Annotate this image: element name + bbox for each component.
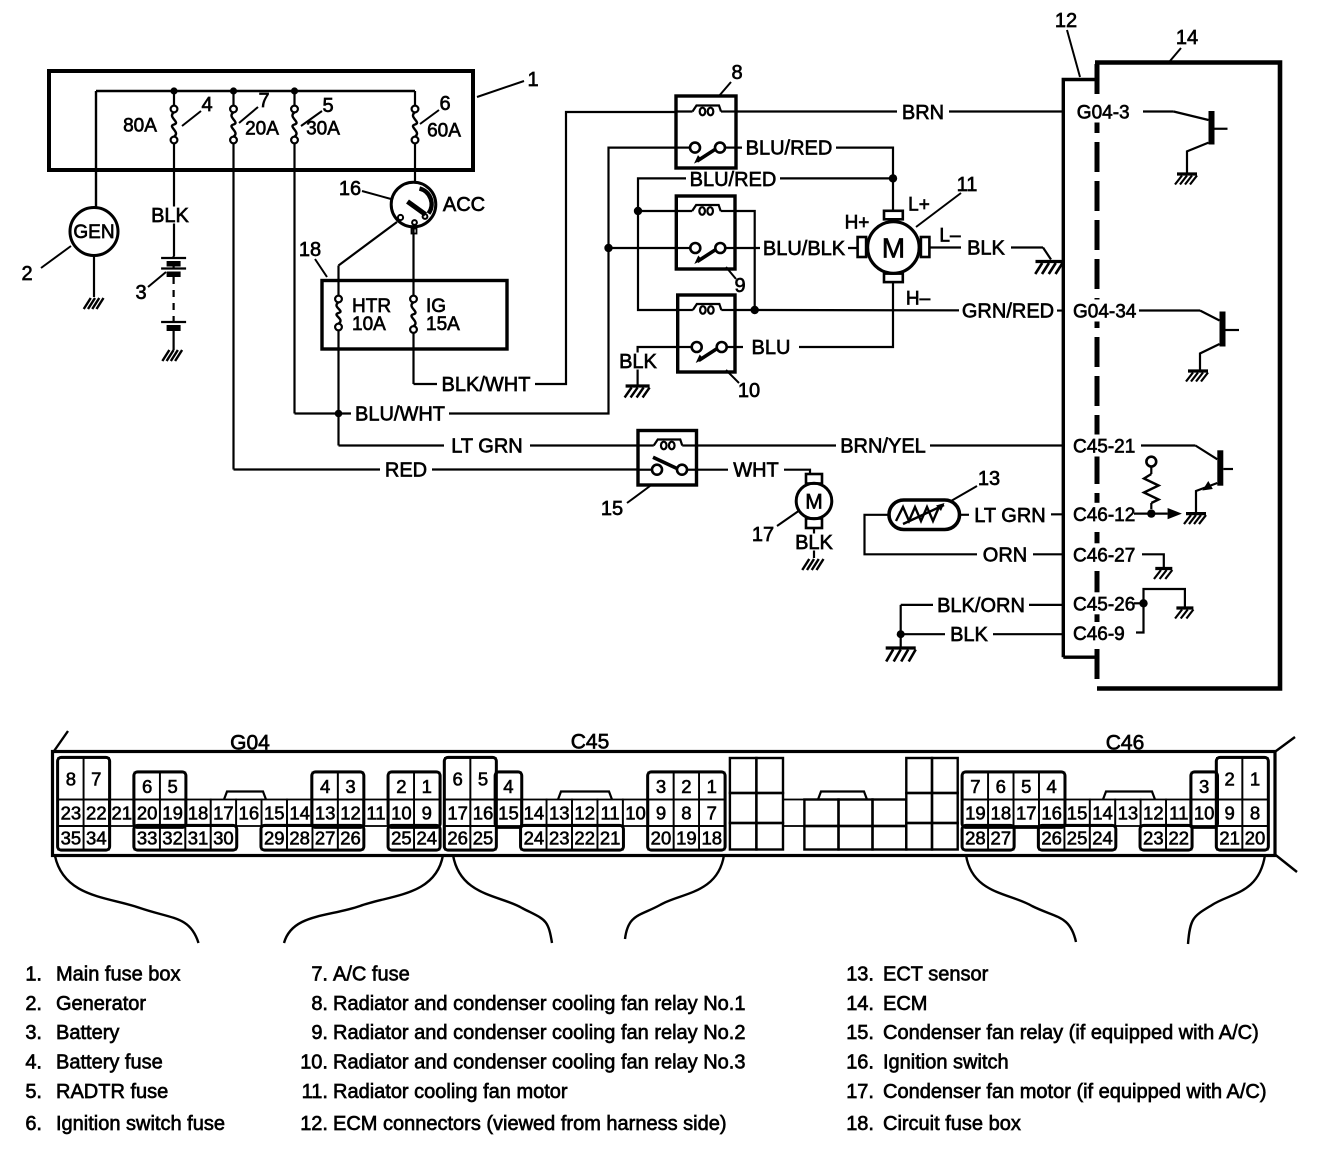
svg-text:23: 23 <box>549 828 570 849</box>
svg-text:9: 9 <box>1224 803 1234 824</box>
svg-text:G04: G04 <box>230 731 270 754</box>
svg-text:32: 32 <box>162 828 183 849</box>
svg-text:24: 24 <box>1092 828 1113 849</box>
svg-text:10A: 10A <box>352 314 386 335</box>
svg-text:ECM connectors (viewed from ha: ECM connectors (viewed from harness side… <box>333 1113 726 1135</box>
svg-text:10: 10 <box>625 803 646 824</box>
svg-text:Radiator cooling fan motor: Radiator cooling fan motor <box>333 1081 568 1103</box>
svg-text:Circuit fuse box: Circuit fuse box <box>883 1113 1021 1135</box>
svg-text:20A: 20A <box>245 119 279 140</box>
svg-text:11: 11 <box>957 174 978 196</box>
svg-text:2: 2 <box>1224 769 1234 790</box>
svg-text:11: 11 <box>366 803 385 824</box>
svg-text:12: 12 <box>1143 803 1164 824</box>
svg-text:C46-12: C46-12 <box>1073 505 1135 526</box>
svg-text:L–: L– <box>939 226 961 247</box>
svg-text:15.: 15. <box>846 1022 874 1044</box>
svg-text:28: 28 <box>965 828 986 849</box>
svg-text:1: 1 <box>422 776 432 797</box>
svg-text:26: 26 <box>1041 828 1062 849</box>
svg-text:15: 15 <box>601 498 623 520</box>
svg-text:30A: 30A <box>306 119 340 140</box>
svg-text:10: 10 <box>1194 803 1215 824</box>
svg-text:29: 29 <box>264 828 285 849</box>
svg-text:8.: 8. <box>311 993 328 1015</box>
svg-text:BLK: BLK <box>151 205 189 227</box>
svg-text:16: 16 <box>1041 803 1062 824</box>
svg-text:ECM: ECM <box>883 993 927 1015</box>
svg-text:18: 18 <box>299 239 321 261</box>
svg-text:6: 6 <box>142 776 152 797</box>
svg-text:21: 21 <box>600 828 621 849</box>
svg-text:27: 27 <box>315 828 336 849</box>
svg-text:8: 8 <box>681 803 691 824</box>
svg-text:8: 8 <box>66 769 76 790</box>
svg-text:14.: 14. <box>846 993 874 1015</box>
svg-text:M: M <box>805 490 823 513</box>
svg-text:17: 17 <box>752 524 774 546</box>
svg-text:RADTR fuse: RADTR fuse <box>56 1081 168 1103</box>
svg-text:Condenser fan relay (if equipp: Condenser fan relay (if equipped with A/… <box>883 1022 1259 1044</box>
svg-text:15A: 15A <box>426 314 460 335</box>
svg-text:9.: 9. <box>311 1022 328 1044</box>
svg-text:19: 19 <box>965 803 986 824</box>
svg-text:C46-27: C46-27 <box>1073 545 1135 566</box>
svg-text:9: 9 <box>422 803 432 824</box>
svg-text:11: 11 <box>1169 803 1188 824</box>
svg-text:2: 2 <box>396 776 406 797</box>
svg-text:12: 12 <box>574 803 595 824</box>
svg-text:12: 12 <box>340 803 361 824</box>
svg-text:24: 24 <box>524 828 545 849</box>
svg-text:GEN: GEN <box>73 222 114 243</box>
svg-text:G04-34: G04-34 <box>1073 302 1137 323</box>
svg-text:G04-3: G04-3 <box>1073 103 1130 124</box>
svg-text:20: 20 <box>1245 828 1266 849</box>
svg-text:17: 17 <box>447 803 468 824</box>
svg-text:3.: 3. <box>25 1022 42 1044</box>
svg-text:22: 22 <box>1168 828 1189 849</box>
svg-text:2.: 2. <box>25 993 42 1015</box>
svg-text:Condenser fan motor (if equipp: Condenser fan motor (if equipped with A/… <box>883 1081 1267 1103</box>
svg-text:17: 17 <box>1016 803 1037 824</box>
svg-text:Radiator and condenser cooling: Radiator and condenser cooling fan relay… <box>333 993 745 1015</box>
svg-text:4: 4 <box>201 94 212 116</box>
svg-text:4: 4 <box>503 776 513 797</box>
svg-text:7: 7 <box>970 776 980 797</box>
svg-text:GRN/RED: GRN/RED <box>962 301 1054 323</box>
svg-text:34: 34 <box>86 828 107 849</box>
svg-text:ECT sensor: ECT sensor <box>883 964 989 986</box>
svg-text:17: 17 <box>213 803 234 824</box>
svg-text:7: 7 <box>91 769 101 790</box>
svg-text:Battery fuse: Battery fuse <box>56 1052 163 1074</box>
svg-text:25: 25 <box>391 828 412 849</box>
svg-text:LT GRN: LT GRN <box>451 436 523 458</box>
svg-text:BLU/BLK: BLU/BLK <box>763 238 846 260</box>
svg-text:1: 1 <box>1250 769 1260 790</box>
svg-text:BLU: BLU <box>752 337 791 359</box>
svg-text:28: 28 <box>289 828 310 849</box>
svg-text:35: 35 <box>61 828 82 849</box>
svg-text:BLK/WHT: BLK/WHT <box>442 374 531 396</box>
svg-text:5.: 5. <box>25 1081 42 1103</box>
svg-text:15: 15 <box>1067 803 1088 824</box>
svg-text:11.: 11. <box>302 1081 328 1103</box>
svg-text:6: 6 <box>439 93 450 115</box>
svg-text:Generator: Generator <box>56 993 146 1015</box>
svg-text:BLK: BLK <box>950 624 988 646</box>
svg-text:10.: 10. <box>300 1052 328 1074</box>
svg-text:C45-26: C45-26 <box>1073 594 1135 615</box>
svg-text:Battery: Battery <box>56 1022 119 1044</box>
svg-text:ACC: ACC <box>443 194 485 216</box>
svg-text:BRN/YEL: BRN/YEL <box>840 436 926 458</box>
svg-text:16: 16 <box>473 803 494 824</box>
svg-text:9: 9 <box>734 275 745 297</box>
svg-text:1: 1 <box>707 776 717 797</box>
svg-text:7: 7 <box>707 803 717 824</box>
svg-text:WHT: WHT <box>733 460 779 482</box>
svg-text:25: 25 <box>473 828 494 849</box>
svg-text:21: 21 <box>111 803 132 824</box>
svg-text:7: 7 <box>258 90 269 112</box>
svg-text:1.: 1. <box>25 964 42 986</box>
svg-text:C45-21: C45-21 <box>1073 437 1135 458</box>
svg-text:Main fuse box: Main fuse box <box>56 964 181 986</box>
svg-text:C46-9: C46-9 <box>1073 624 1125 645</box>
svg-text:5: 5 <box>167 776 177 797</box>
svg-text:C45: C45 <box>571 730 610 753</box>
svg-text:22: 22 <box>574 828 595 849</box>
svg-text:9: 9 <box>656 803 666 824</box>
svg-text:18.: 18. <box>846 1113 874 1135</box>
svg-text:16: 16 <box>339 178 361 200</box>
svg-text:M: M <box>882 232 905 263</box>
svg-text:14: 14 <box>289 803 310 824</box>
svg-text:12: 12 <box>1055 10 1077 32</box>
svg-text:18: 18 <box>702 828 723 849</box>
svg-text:3: 3 <box>345 776 355 797</box>
svg-text:25: 25 <box>1067 828 1088 849</box>
svg-text:RED: RED <box>385 460 427 482</box>
svg-text:23: 23 <box>61 803 82 824</box>
svg-text:BLK: BLK <box>619 351 657 373</box>
svg-text:24: 24 <box>417 828 438 849</box>
svg-text:18: 18 <box>991 803 1012 824</box>
svg-text:31: 31 <box>188 828 209 849</box>
svg-text:17.: 17. <box>846 1081 874 1103</box>
svg-text:BLU/WHT: BLU/WHT <box>355 404 445 426</box>
svg-text:6: 6 <box>452 769 462 790</box>
svg-text:16: 16 <box>239 803 260 824</box>
svg-text:30: 30 <box>213 828 234 849</box>
svg-text:Radiator and condenser cooling: Radiator and condenser cooling fan relay… <box>333 1052 745 1074</box>
svg-text:1: 1 <box>527 69 538 91</box>
svg-text:C46: C46 <box>1106 731 1145 754</box>
svg-text:6.: 6. <box>25 1113 42 1135</box>
svg-text:BRN: BRN <box>902 102 944 124</box>
svg-text:7.: 7. <box>311 964 328 986</box>
svg-text:10: 10 <box>391 803 412 824</box>
svg-text:BLK: BLK <box>967 238 1005 260</box>
svg-text:14: 14 <box>524 803 545 824</box>
svg-text:5: 5 <box>478 769 488 790</box>
svg-text:4: 4 <box>320 776 330 797</box>
svg-text:BLU/RED: BLU/RED <box>690 169 777 191</box>
svg-text:A/C fuse: A/C fuse <box>333 964 410 986</box>
svg-text:21: 21 <box>1219 828 1240 849</box>
svg-text:26: 26 <box>447 828 468 849</box>
svg-text:22: 22 <box>86 803 107 824</box>
svg-text:60A: 60A <box>427 121 461 142</box>
svg-text:8: 8 <box>1250 803 1260 824</box>
svg-text:27: 27 <box>991 828 1012 849</box>
svg-text:15: 15 <box>498 803 519 824</box>
svg-text:3: 3 <box>656 776 666 797</box>
svg-text:H–: H– <box>906 289 931 310</box>
svg-text:LT GRN: LT GRN <box>974 505 1046 527</box>
svg-text:Ignition switch: Ignition switch <box>883 1052 1009 1074</box>
svg-text:L+: L+ <box>908 195 930 216</box>
svg-text:18: 18 <box>188 803 209 824</box>
svg-text:BLU/RED: BLU/RED <box>746 138 833 160</box>
svg-text:19: 19 <box>162 803 183 824</box>
svg-text:4.: 4. <box>25 1052 42 1074</box>
svg-text:3: 3 <box>1199 776 1209 797</box>
svg-text:26: 26 <box>340 828 361 849</box>
svg-text:Ignition switch fuse: Ignition switch fuse <box>56 1113 225 1135</box>
svg-text:13: 13 <box>549 803 570 824</box>
svg-text:BLK/ORN: BLK/ORN <box>937 595 1025 617</box>
svg-text:15: 15 <box>264 803 285 824</box>
svg-text:Radiator and condenser cooling: Radiator and condenser cooling fan relay… <box>333 1022 745 1044</box>
svg-text:14: 14 <box>1092 803 1113 824</box>
svg-text:16.: 16. <box>846 1052 874 1074</box>
svg-text:8: 8 <box>731 62 742 84</box>
svg-text:20: 20 <box>137 803 158 824</box>
svg-text:13: 13 <box>978 468 1000 490</box>
svg-text:2: 2 <box>681 776 691 797</box>
svg-text:13.: 13. <box>846 964 874 986</box>
svg-text:2: 2 <box>21 263 32 285</box>
svg-text:5: 5 <box>1021 776 1031 797</box>
svg-text:13: 13 <box>1118 803 1139 824</box>
svg-text:11: 11 <box>601 803 620 824</box>
svg-text:12.: 12. <box>300 1113 328 1135</box>
svg-text:80A: 80A <box>123 116 157 137</box>
svg-text:ORN: ORN <box>983 544 1027 566</box>
svg-text:5: 5 <box>322 95 333 117</box>
svg-text:6: 6 <box>996 776 1006 797</box>
svg-text:14: 14 <box>1176 27 1198 49</box>
svg-text:3: 3 <box>135 282 146 304</box>
svg-text:H+: H+ <box>845 213 870 234</box>
svg-text:BLK: BLK <box>795 532 833 554</box>
svg-text:19: 19 <box>676 828 697 849</box>
svg-text:13: 13 <box>315 803 336 824</box>
svg-text:20: 20 <box>651 828 672 849</box>
svg-text:33: 33 <box>137 828 158 849</box>
svg-text:4: 4 <box>1047 776 1057 797</box>
svg-text:23: 23 <box>1143 828 1164 849</box>
svg-text:10: 10 <box>738 380 760 402</box>
